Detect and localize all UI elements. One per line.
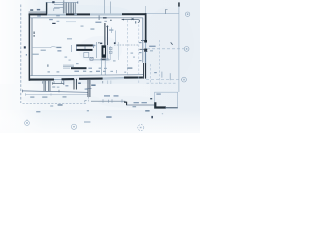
- texts bottom-left: [30, 96, 34, 97]
- faint vertical x118: [117, 42, 119, 60]
- right exterior wall lower (double dark lines): [142, 63, 145, 79]
- right exterior wall upper (dark): [145, 13, 147, 40]
- terrace edge tick: [22, 90, 24, 93]
- grid bubble 3: [182, 77, 187, 82]
- text on dimension line: [63, 96, 67, 97]
- boxed X fixture symbol: [90, 57, 93, 60]
- grid dashed line lower (to bubble3): [146, 79, 182, 81]
- marks right of building bottom: [154, 72, 157, 73]
- top wall segment C (dark, to NE corner): [122, 13, 146, 15]
- tick left of box: [150, 98, 152, 99]
- text 1.20: [91, 84, 95, 86]
- dim text row mid: [88, 68, 92, 69]
- dim ticks below bottom wall right: [108, 81, 111, 85]
- dashed line right-bottom: [147, 82, 177, 84]
- bottom wall inner face line: [30, 75, 143, 76]
- stair handrail L: [54, 8, 60, 11]
- small fixture rect pair: [109, 47, 112, 49]
- small texts above bottom wall: [47, 64, 48, 66]
- mark above stair: [52, 1, 54, 3]
- legend box text: [156, 93, 160, 94]
- dashed vertical right of building: [149, 64, 151, 84]
- lintel line above top wall left: [29, 11, 47, 14]
- dimension line centre-bottom: [91, 100, 125, 102]
- dashed vertical x159: [158, 40, 160, 84]
- text aw bottom centre: [106, 116, 111, 118]
- garden wall double line (long vertical): [87, 80, 89, 97]
- datum bubble bottom-left: [25, 121, 30, 126]
- datum bubble bottom-centre: [71, 124, 76, 129]
- legend box dark L corner: [155, 102, 166, 107]
- tick pair right of left wall: [33, 32, 35, 37]
- dimension extension lines above top wall centre: [104, 0, 106, 13]
- bottom wall segment b: [62, 78, 75, 80]
- bottom wall window c-d: [103, 77, 124, 79]
- jamb tick into room 2: [140, 48, 145, 51]
- texts on inner wall line: [37, 15, 41, 16]
- text 2.10 bottom-left: [58, 104, 63, 106]
- fine dashed line y45: [114, 44, 139, 46]
- grid dashed line mid (to bubble2): [147, 48, 184, 50]
- window dim ticks below bottom wall: [43, 81, 103, 84]
- top wall inner face line: [30, 17, 143, 20]
- top wall segment A (dark): [29, 13, 48, 15]
- top wall window 2: [90, 13, 122, 16]
- interior partition wall (vertical, centre): [104, 23, 105, 45]
- terrace second line (dimension): [26, 94, 89, 96]
- legend box bottom-right: [155, 92, 178, 108]
- faint texts left room: [41, 50, 46, 51]
- counter bar 1: [76, 44, 93, 46]
- door step double vertical below wall gap: [73, 79, 75, 90]
- bottom wall segment a: [30, 78, 54, 80]
- right wall window (light): [145, 43, 146, 49]
- top wall window 1: [47, 13, 66, 16]
- paper background: [0, 0, 200, 133]
- text below right dim line: [133, 106, 137, 107]
- jamb tick into room 1: [141, 39, 144, 42]
- interior wall bar (lower left room): [71, 67, 87, 69]
- dashed site boundary line (left): [20, 5, 22, 104]
- stair landing line 1: [54, 3, 64, 6]
- building interior lighter paper: [31, 16, 144, 76]
- dark dash mark left room top: [52, 23, 55, 24]
- x mark at jamb 2: [145, 50, 147, 52]
- legend box bottom edge: [165, 107, 178, 109]
- dashed grade line left: [23, 102, 87, 104]
- tiny tick above hatch left: [62, 0, 65, 2]
- text 150 below: [145, 110, 149, 112]
- dark arrow at dim end: [124, 102, 127, 105]
- right wall jamb block 2: [144, 49, 147, 52]
- left wall inner line: [31, 18, 34, 76]
- faint wavy annotation line left room: [32, 46, 58, 47]
- grid line top (to bubble): [147, 13, 180, 15]
- grid vertical dark tick top: [178, 2, 180, 6]
- dim tick near grid top: [166, 10, 168, 14]
- scan haze mottle: [20, 5, 194, 108]
- grid vertical line right: [178, 3, 180, 92]
- datum bubble bottom-right (dashed): [138, 125, 144, 131]
- top wall segment B (dark): [66, 13, 90, 15]
- tick top of hatch: [76, 1, 79, 3]
- grid bubble 2: [184, 47, 189, 52]
- cross tick on terrace line: [58, 90, 60, 93]
- faint closet line below top wall: [66, 21, 76, 23]
- faint text left room bottom: [67, 38, 72, 39]
- bottom wall window a-b: [54, 78, 62, 80]
- small dark dash below box: [151, 116, 153, 118]
- partition below chimney lines: [100, 58, 102, 75]
- counter connectors: [75, 45, 77, 52]
- texts above right dim: [134, 102, 139, 103]
- fixture rect below counters: [84, 53, 89, 58]
- short vertical mark x111: [111, 28, 113, 34]
- dim ticks and texts above: [103, 99, 122, 102]
- dashed vertical interior 1: [127, 20, 129, 75]
- dimension line to right: [127, 104, 155, 106]
- door marks below top wall centre: [95, 22, 101, 23]
- chimney block: [102, 45, 107, 58]
- faint dashed vertical at x96: [95, 42, 97, 58]
- faint text pair above terrace line: [52, 86, 55, 87]
- text right of wall mid: [149, 46, 155, 47]
- small mark below it: [26, 54, 27, 56]
- faint dot right: [162, 112, 163, 115]
- porch step lines below wall: [44, 81, 50, 92]
- dashed vertical interior 2: [138, 21, 140, 84]
- terrace edge line: [23, 91, 89, 92]
- bottom wall segment d: [124, 76, 143, 78]
- right wall middle (lighter): [145, 52, 146, 63]
- sliding door lines: [63, 64, 74, 67]
- counter bar 2: [76, 49, 92, 51]
- right wall inner line: [141, 18, 144, 63]
- text 1.5 top-left: [30, 9, 33, 11]
- grid bubble 1: [185, 12, 189, 16]
- left exterior wall: [29, 13, 31, 80]
- vertical leader line with end blob: [114, 31, 116, 44]
- window tick outside left wall: [24, 46, 26, 48]
- faint marks right room: [131, 53, 134, 54]
- track line with arrow and hook: [122, 19, 139, 21]
- door notch in top wall B: [74, 14, 77, 16]
- tick below fixtures: [113, 60, 116, 61]
- texts near inner right wall: [139, 42, 142, 43]
- garden wall faint continuation: [87, 97, 89, 102]
- shelf line right of chimney: [94, 59, 110, 62]
- bottom wall segment c: [79, 78, 103, 80]
- X door swing mark 1: [131, 18, 134, 20]
- text right of door verticals: [78, 83, 81, 85]
- tick on mid grid line: [171, 42, 173, 44]
- stair side wall: [46, 2, 47, 14]
- thin verticals right of chimney: [107, 46, 109, 60]
- stair top cap line: [46, 1, 78, 4]
- right wall jamb block 1: [144, 40, 147, 43]
- dim line with ticks y83.4: [53, 82, 64, 84]
- tick and text left of it: [63, 80, 65, 85]
- text lower-centre room: [127, 67, 132, 68]
- stair tread hatch: [63, 3, 75, 14]
- marks left of counters: [56, 47, 61, 48]
- short partition stub below top wall: [98, 15, 101, 20]
- tick near X1: [135, 21, 136, 23]
- stair landing line 2: [54, 6, 64, 9]
